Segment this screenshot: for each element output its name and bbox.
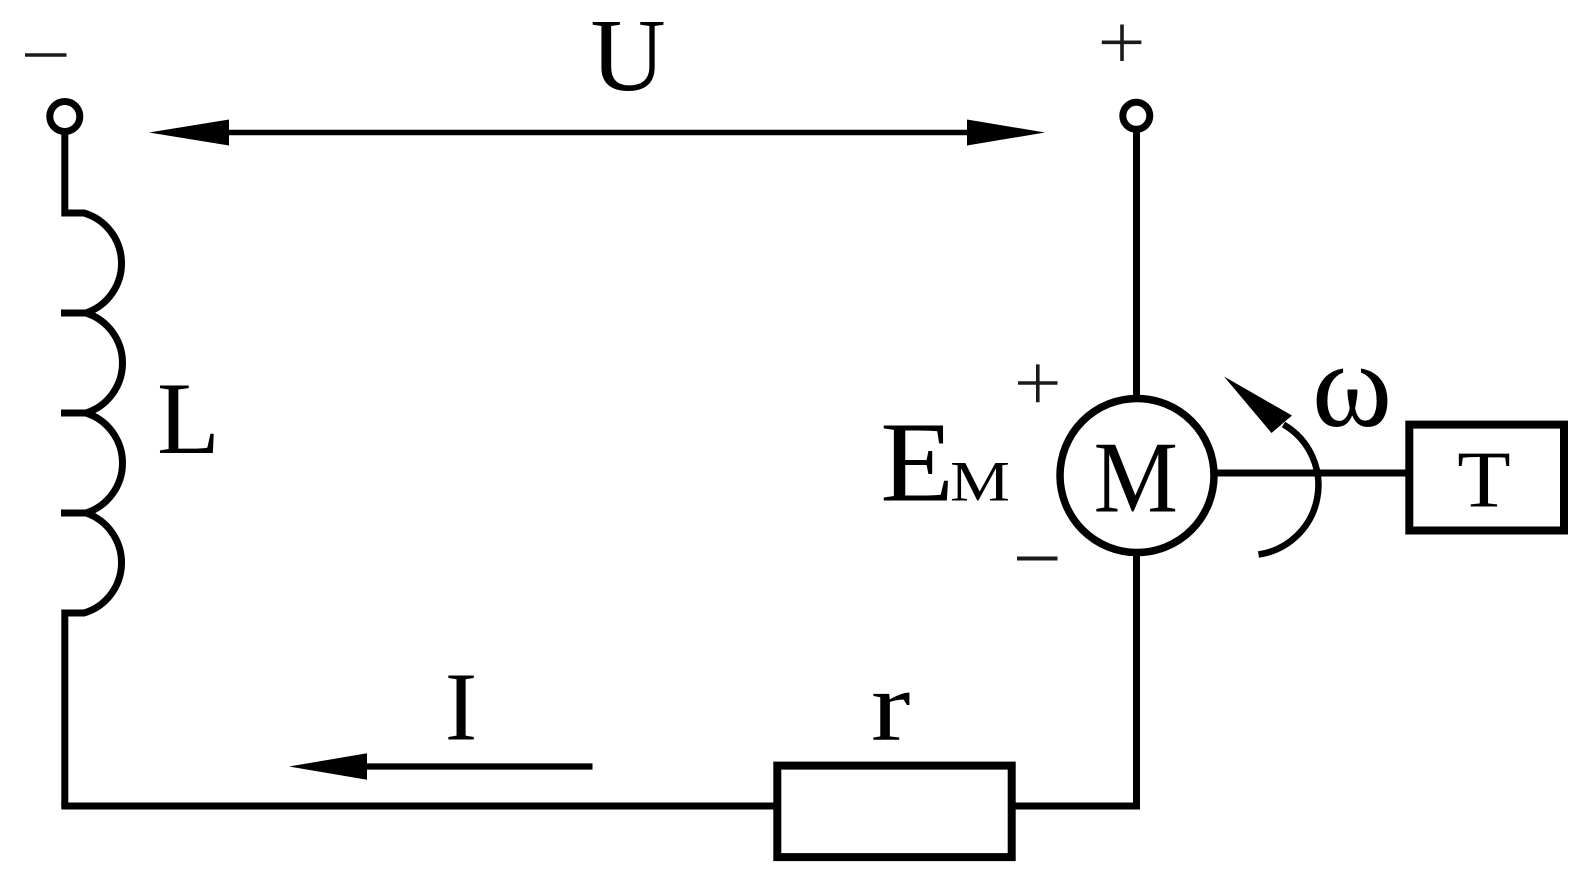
minus polarity sign at left terminal <box>25 53 67 57</box>
svg-text:ω: ω <box>1312 318 1392 453</box>
resistor r box <box>777 766 1011 858</box>
svg-text:I: I <box>445 654 477 761</box>
wire: bottom rail left segment <box>61 803 777 810</box>
node: left terminal circle <box>50 102 80 132</box>
label E_M (back EMF) <box>880 398 1010 526</box>
wire: right terminal down to motor <box>1133 130 1140 400</box>
svg-text:E: E <box>880 398 954 526</box>
shaft from motor to load <box>1216 470 1409 477</box>
minus sign below motor <box>1017 557 1058 561</box>
current arrow I <box>289 753 593 780</box>
rotation arrow omega (curved arc with arrowhead) <box>1224 377 1318 555</box>
svg-text:L: L <box>157 362 220 476</box>
load box T <box>1409 425 1564 531</box>
motor M circle <box>1060 399 1214 553</box>
plus sign above motor <box>1018 364 1058 402</box>
wire: bottom rail right segment (resistor to motor branch) <box>1012 803 1140 810</box>
svg-text:M: M <box>950 450 1010 513</box>
inductor L (coil with four arcs) <box>61 130 122 806</box>
svg-text:U: U <box>590 0 665 113</box>
node: right terminal circle <box>1123 102 1150 129</box>
voltage dimension arrow U (double headed) <box>149 120 1045 146</box>
wire: motor bottom down to bottom rail <box>1133 552 1140 809</box>
svg-text:r: r <box>871 651 911 762</box>
svg-text:M: M <box>1094 421 1178 534</box>
svg-text:T: T <box>1457 435 1510 524</box>
plus polarity sign at right terminal <box>1102 25 1142 62</box>
